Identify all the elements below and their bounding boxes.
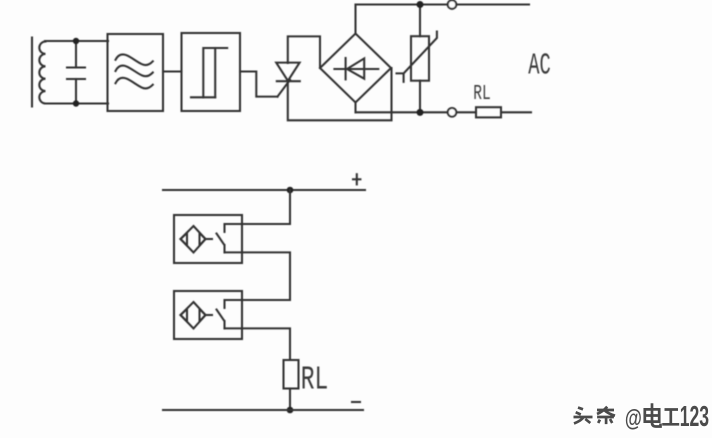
node junction dot varistor bottom: [417, 109, 424, 116]
wire U1 to U2: [163, 70, 182, 72]
bridge rectifier diamond: [320, 34, 391, 103]
wire plus rail: [163, 189, 365, 191]
wire bridge top vertex up: [354, 5, 356, 34]
filter box U1: [108, 34, 164, 111]
wire top rail AC: [356, 3, 530, 5]
sensor S2 bottom contact: [223, 321, 225, 328]
watermark glyph 工: [662, 410, 679, 425]
watermark glyph @: [627, 408, 644, 434]
sensor S2 switch blade: [217, 310, 225, 321]
varistor RV1 top lead: [419, 5, 421, 37]
label plus: [353, 174, 360, 184]
transformer winding L1: [39, 42, 45, 104]
sensor S1 top contact: [223, 224, 225, 232]
wire gate diagonal: [278, 80, 291, 97]
filter wave 1: [116, 54, 153, 65]
transformer core bar: [31, 38, 33, 107]
sensor S1 inner left triangle: [181, 233, 188, 246]
label minus: [352, 401, 360, 403]
node junction dot minus rail: [287, 407, 294, 414]
sensor S2 top contact: [223, 300, 225, 308]
proximity sensor box S1: [174, 215, 242, 263]
sensor S2 inner right triangle: [200, 309, 206, 322]
node junction dot top of C1: [73, 38, 79, 44]
hysteresis symbol: [191, 48, 227, 97]
node junction dot plus rail: [287, 187, 294, 194]
varistor RV1 body: [411, 36, 429, 80]
svg-text:123: 123: [680, 402, 709, 433]
thyristor V1 triangle: [276, 63, 299, 81]
wire rail to sensor1: [225, 190, 291, 224]
svg-text:@: @: [625, 406, 642, 432]
node junction dot varistor top: [417, 1, 424, 8]
proximity sensor box S2: [174, 291, 242, 339]
sensor S1 bottom contact: [223, 245, 225, 252]
wire bottom rail AC: [356, 111, 477, 113]
wire RL to minus rail: [289, 389, 291, 411]
watermark digits 123: [682, 404, 711, 435]
sensor S1 lead: [206, 238, 213, 240]
wire bridge bottom vertex down: [354, 103, 356, 113]
watermark glyph 头: [574, 408, 593, 424]
terminal circle top: [448, 0, 457, 9]
sensor S2 lead: [206, 314, 213, 316]
wire cathode down and loop to bridge right vertex: [288, 68, 392, 120]
sensor S1 diamond: [181, 226, 206, 253]
wire U2 output to gate: [240, 72, 278, 97]
sensor S1 inner right triangle: [200, 233, 206, 246]
watermark glyph 条: [597, 407, 615, 424]
watermark glyph 电: [645, 403, 661, 426]
svg-text:RL: RL: [473, 83, 491, 106]
varistor RV1 diagonal: [397, 32, 437, 82]
wire sensor2 to RL: [225, 328, 291, 360]
capacitor C1: [67, 41, 85, 104]
svg-text:AC: AC: [528, 49, 551, 84]
watermark 头条@电工123: [574, 402, 711, 435]
varistor RV1 bottom lead: [419, 81, 421, 113]
node junction dot bottom of C1: [73, 100, 79, 106]
schmitt trigger box U2: [182, 33, 241, 111]
thyristor V1 cathode bar: [277, 80, 300, 82]
filter wave 2: [116, 66, 153, 77]
sensor S1 switch blade: [217, 234, 225, 245]
svg-text:RL: RL: [301, 362, 329, 399]
resistor RL bottom body: [284, 360, 299, 389]
sensor S2 diamond: [181, 302, 206, 329]
terminal circle bottom: [448, 108, 457, 117]
wire bottom left: [45, 102, 108, 104]
bridge diode bar: [345, 58, 347, 79]
filter wave 3: [116, 78, 153, 89]
bridge diode triangle: [347, 58, 364, 78]
bridge diode line: [334, 68, 378, 70]
wire after RL: [501, 111, 531, 113]
wire sensor1 to sensor2: [225, 252, 291, 300]
wire top left: [45, 40, 108, 42]
wire anode loop to bridge: [288, 36, 320, 68]
wire minus rail: [163, 409, 363, 411]
resistor RL top body: [476, 107, 501, 117]
sensor S2 inner left triangle: [181, 309, 188, 322]
